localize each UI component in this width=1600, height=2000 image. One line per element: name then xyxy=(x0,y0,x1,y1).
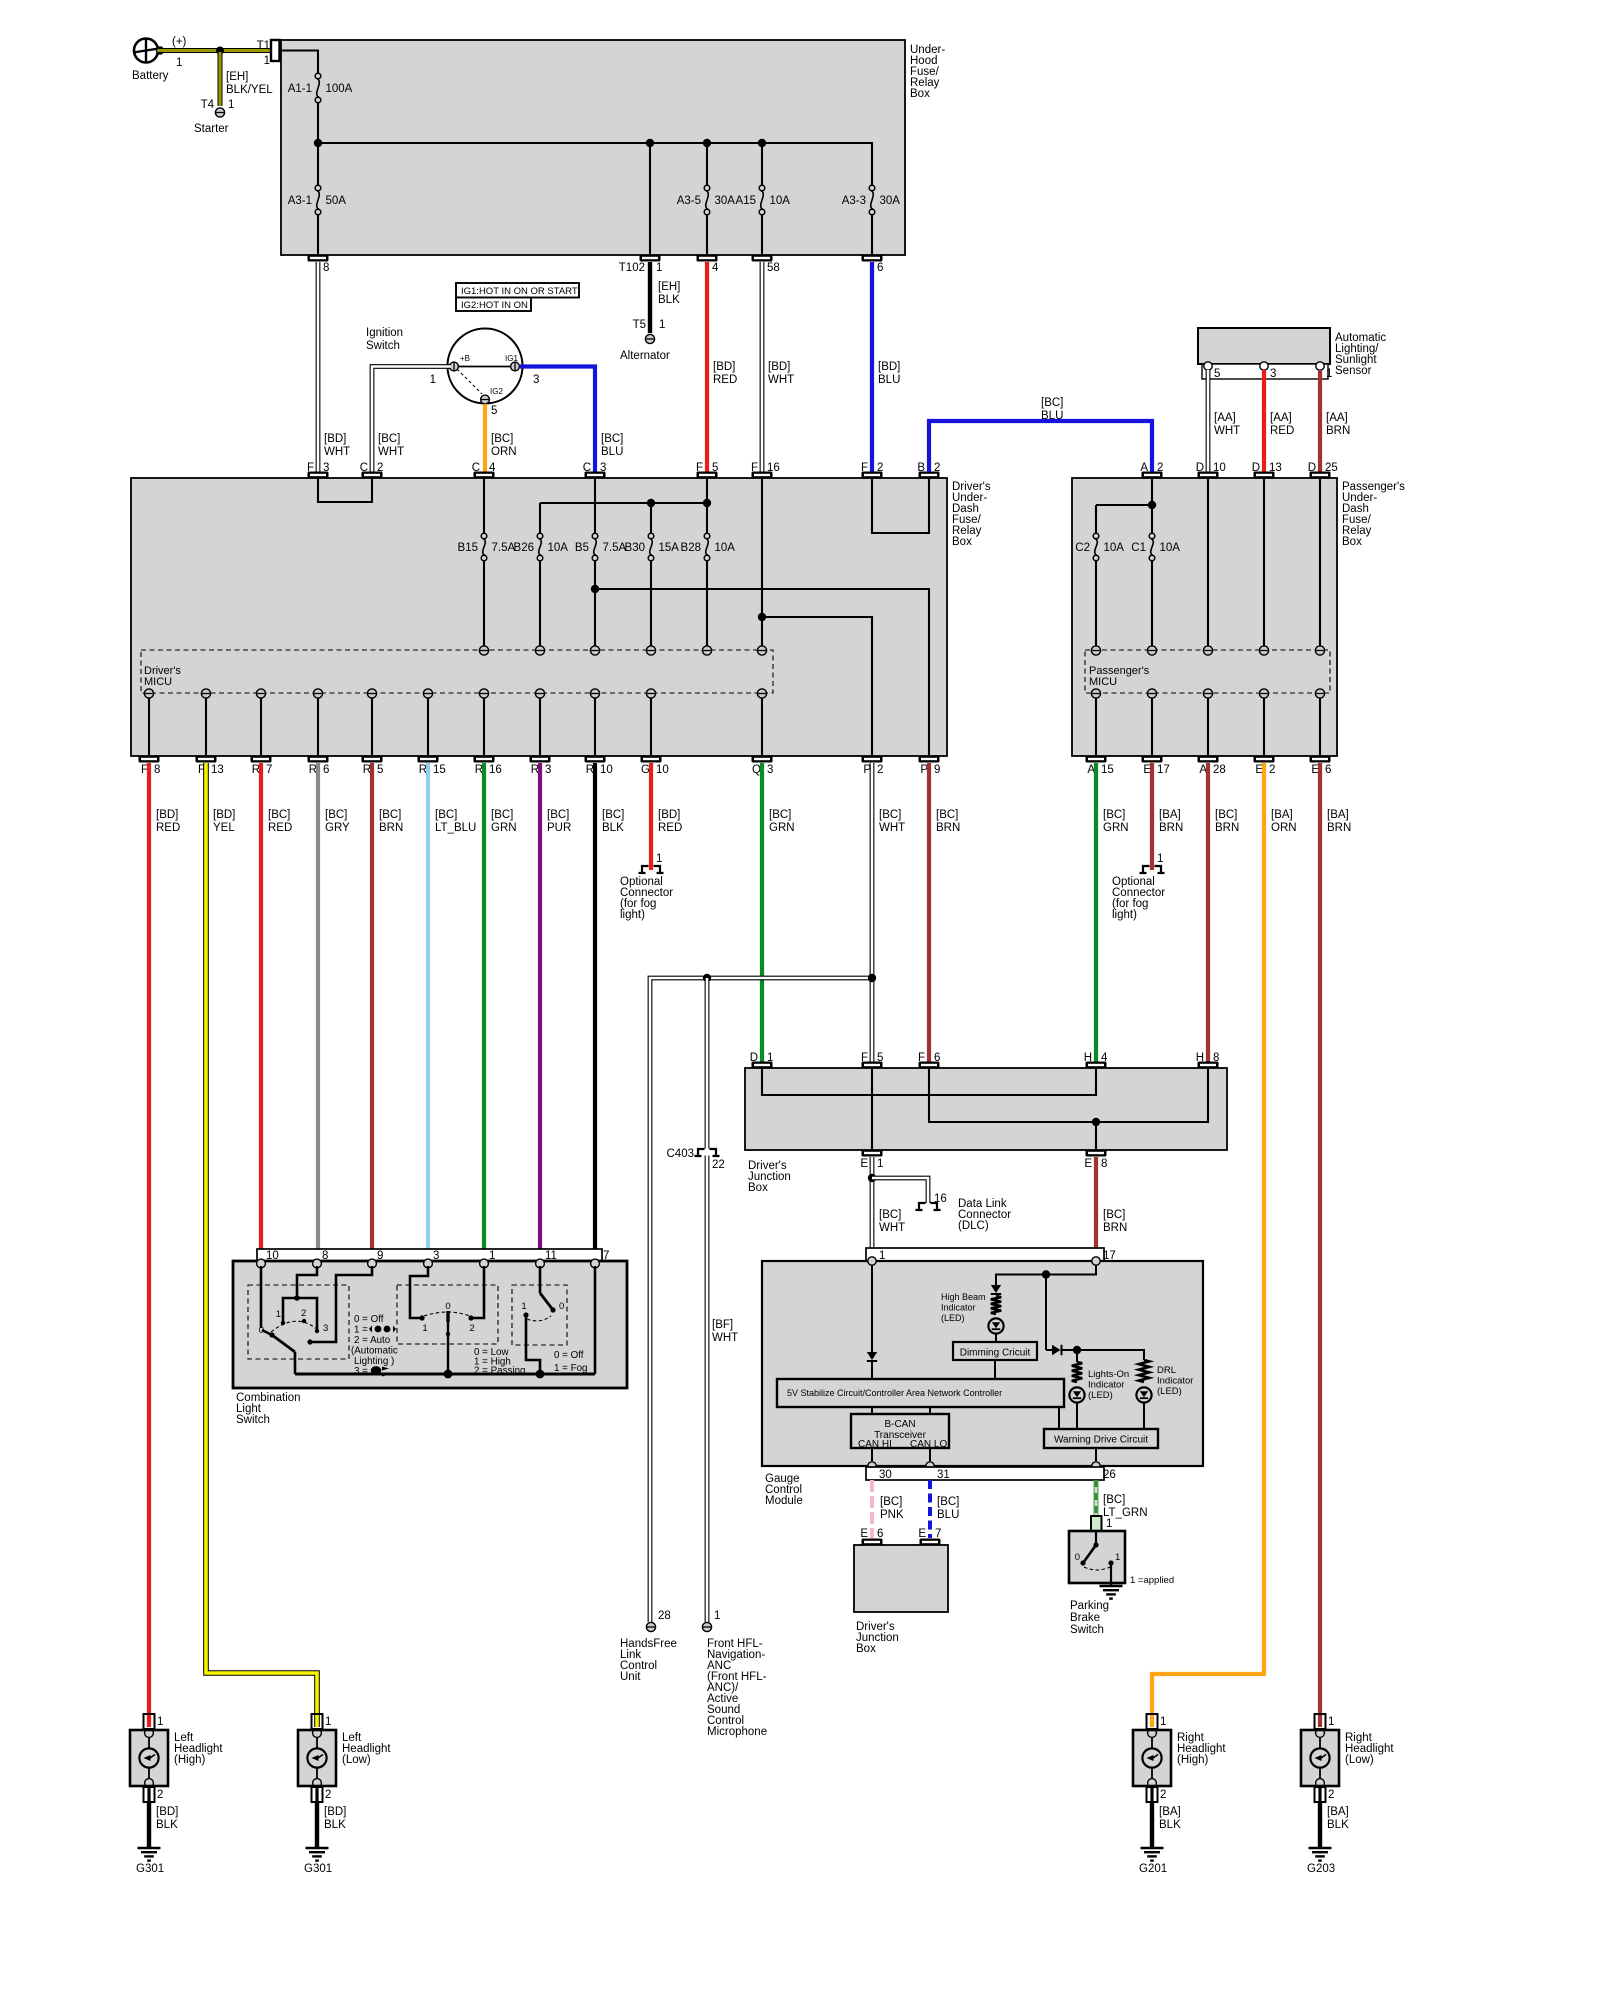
front HFL microphone terminal 1 xyxy=(702,1610,767,1738)
svg-text:7: 7 xyxy=(935,1528,941,1540)
wire R15 [BC] LT_BLU to combination switch 3 xyxy=(428,763,476,1249)
svg-text:RED: RED xyxy=(713,374,737,386)
lights-on indicator (LED) xyxy=(1069,1350,1129,1429)
wire CAN HI to pin 30 xyxy=(871,1448,873,1461)
MICU input terminal x762 xyxy=(757,646,766,655)
svg-text:Indicator: Indicator xyxy=(941,1303,976,1313)
driver's MICU xyxy=(141,650,773,693)
wire D25 to MICU xyxy=(1319,478,1321,646)
passenger MICU output terminal x1264 xyxy=(1259,689,1268,755)
terminal E 1 (junction box bottom) xyxy=(860,1150,883,1171)
wire pin26 [BC] LT_GRN to parking brake switch xyxy=(1096,1480,1148,1519)
svg-text:10: 10 xyxy=(1213,462,1226,474)
wire F8 [BD] RED to left headlight high xyxy=(149,763,180,1727)
svg-text:10A: 10A xyxy=(1104,542,1125,554)
ground G201 xyxy=(1139,1848,1167,1875)
combination switch common bus xyxy=(295,1266,595,1374)
fog switch dashed box xyxy=(512,1285,567,1345)
fuse B5 7.5A xyxy=(575,533,627,646)
fuse A15 10A xyxy=(736,143,791,255)
lighting switch lever xyxy=(259,1325,295,1374)
combination switch pin circle x317 xyxy=(313,1259,322,1268)
terminal F 6 (junction box top) xyxy=(918,1052,940,1069)
svg-text:3: 3 xyxy=(533,374,539,386)
wire C3 to fuse B5 xyxy=(594,478,596,533)
Left Headlight (Low) bulb xyxy=(298,1729,391,1788)
svg-text:(Low): (Low) xyxy=(342,1754,371,1766)
svg-text:BRN: BRN xyxy=(379,822,403,834)
wire E6 [BA] BRN to right headlight low xyxy=(1320,763,1351,1727)
MICU input terminal x707 xyxy=(702,646,711,655)
svg-text:[BD]: [BD] xyxy=(658,809,680,821)
svg-text:2: 2 xyxy=(877,764,883,776)
svg-text:1: 1 xyxy=(430,374,436,386)
svg-text:F: F xyxy=(861,1052,868,1064)
svg-text:E: E xyxy=(1084,1158,1092,1170)
fuse B26 10A xyxy=(514,503,569,646)
svg-text:D: D xyxy=(1252,462,1260,474)
svg-text:3: 3 xyxy=(323,462,329,474)
wire warning to pin 26 xyxy=(1095,1448,1097,1461)
MICU output terminal x261 xyxy=(256,689,265,755)
svg-text:GRN: GRN xyxy=(769,822,795,834)
wire C4 to fuse B15 xyxy=(483,478,485,533)
svg-text:BLK: BLK xyxy=(324,1819,346,1831)
wire [BD] WHT terminal 8 to F3 xyxy=(318,262,350,472)
svg-text:R: R xyxy=(475,764,483,776)
terminal H 4 (junction box top) xyxy=(1084,1052,1108,1069)
svg-text:8: 8 xyxy=(323,262,329,274)
wire starter branch xyxy=(201,52,274,111)
svg-text:[BD]: [BD] xyxy=(213,809,235,821)
svg-text:Switch: Switch xyxy=(236,1414,270,1426)
node A2 feed xyxy=(1148,501,1156,509)
svg-text:[BC]: [BC] xyxy=(491,809,513,821)
svg-text:PNK: PNK xyxy=(880,1509,904,1521)
svg-text:RED: RED xyxy=(156,822,180,834)
svg-text:[BD]: [BD] xyxy=(768,361,790,373)
wire D1 to H4 internal xyxy=(762,1068,1096,1095)
svg-text:[BC]: [BC] xyxy=(379,809,401,821)
passenger MICU output terminal x1096 xyxy=(1091,689,1100,755)
terminal D 13 (passenger box top) xyxy=(1252,462,1282,479)
svg-text:6: 6 xyxy=(1325,764,1331,776)
svg-text:Ignition: Ignition xyxy=(366,327,403,339)
svg-text:GRY: GRY xyxy=(325,822,350,834)
wire D13 to MICU xyxy=(1263,478,1265,646)
svg-text:8: 8 xyxy=(154,764,160,776)
wire E8 [BC] BRN to gauge 17 xyxy=(1096,1157,1127,1249)
svg-text:A1-1: A1-1 xyxy=(288,83,312,95)
wire Q3 [BC] GRN to junction box D1 xyxy=(762,763,795,1062)
fuse B28 10A xyxy=(681,503,736,646)
wire tap to diode2 xyxy=(1045,1275,1047,1351)
connector C403 22 xyxy=(667,1148,725,1171)
svg-text:G203: G203 xyxy=(1307,1863,1335,1875)
terminal B 2 (driver box top) xyxy=(917,462,940,479)
sensor pin 1 xyxy=(1316,362,1333,380)
terminal Q 3 (driver box bottom) xyxy=(752,756,774,777)
wire F2-B2 internal link xyxy=(872,478,929,533)
svg-text:1 =applied: 1 =applied xyxy=(1130,1575,1174,1586)
passenger MICU input terminal x1264 xyxy=(1259,646,1268,655)
svg-text:3: 3 xyxy=(600,462,606,474)
gauge pin 30 xyxy=(868,1462,876,1470)
svg-text:[BC]: [BC] xyxy=(936,809,958,821)
svg-text:17: 17 xyxy=(1157,764,1170,776)
terminal E 7 xyxy=(918,1528,941,1546)
svg-text:WHT: WHT xyxy=(879,822,905,834)
terminal 4 xyxy=(697,255,720,275)
wire F3-C2 internal link xyxy=(318,478,372,502)
svg-text:Indicator: Indicator xyxy=(1157,1376,1193,1387)
svg-text:1: 1 xyxy=(767,1052,773,1064)
svg-text:G301: G301 xyxy=(304,1863,332,1875)
MICU output terminal x428 xyxy=(423,689,432,755)
svg-text:[BC]: [BC] xyxy=(378,433,400,445)
wire A1-1 to bus xyxy=(317,103,319,141)
node F16-P2 tap xyxy=(758,613,766,621)
svg-text:2: 2 xyxy=(325,1789,331,1801)
svg-text:B-CAN: B-CAN xyxy=(884,1419,915,1430)
svg-text:B15: B15 xyxy=(458,542,478,554)
fuse B15 7.5A xyxy=(458,533,516,646)
terminal A 15 (passenger box bottom) xyxy=(1086,756,1114,777)
svg-text:C: C xyxy=(360,462,368,474)
wire A2 fuse feed xyxy=(1096,478,1152,533)
svg-text:10A: 10A xyxy=(715,542,736,554)
passenger MICU output terminal x1152 xyxy=(1147,689,1156,755)
svg-text:LT_BLU: LT_BLU xyxy=(435,822,476,834)
svg-text:Unit: Unit xyxy=(620,1671,641,1683)
svg-text:[EH]: [EH] xyxy=(226,71,248,83)
wire F6 to H8 internal xyxy=(929,1068,1208,1122)
terminal F 5 (driver box top) xyxy=(696,462,718,479)
passenger MICU input terminal x1320 xyxy=(1315,646,1324,655)
MICU output terminal x595 xyxy=(590,689,599,755)
wire E8 stub xyxy=(1095,1122,1097,1150)
wire [BD] BLK to G301 xyxy=(149,1787,178,1847)
svg-text:BLK: BLK xyxy=(658,294,680,306)
svg-text:[BC]: [BC] xyxy=(325,809,347,821)
svg-text:25: 25 xyxy=(1325,462,1338,474)
MICU output terminal x540 xyxy=(535,689,544,755)
svg-text:B30: B30 xyxy=(625,542,645,554)
svg-text:1 = Fog: 1 = Fog xyxy=(554,1363,588,1374)
svg-text:6: 6 xyxy=(323,764,329,776)
svg-text:(DLC): (DLC) xyxy=(958,1220,989,1232)
node B5 output xyxy=(591,585,599,593)
optional connector (for fog light) right xyxy=(1112,853,1165,921)
wire E2 [BA] ORN to right headlight high xyxy=(1152,763,1297,1727)
svg-text:Starter: Starter xyxy=(194,123,229,135)
svg-text:10: 10 xyxy=(600,764,613,776)
parking brake switch label xyxy=(1070,1600,1109,1636)
wire F13 [BD] YEL to left headlight low xyxy=(206,763,317,1727)
gauge pin 17 xyxy=(1092,1257,1100,1265)
fuse A3-1 50A xyxy=(288,143,347,255)
svg-text:1: 1 xyxy=(276,1309,281,1320)
wire T1 to fuse A1-1 xyxy=(279,51,318,74)
svg-text:CAN LO: CAN LO xyxy=(910,1439,947,1450)
svg-text:30A: 30A xyxy=(715,195,736,207)
headlight connector 1 (G201) xyxy=(1147,1714,1167,1729)
svg-text:WHT: WHT xyxy=(324,446,350,458)
node white branch C403 xyxy=(703,974,711,982)
sensor connector xyxy=(1202,364,1328,379)
svg-text:[BD]: [BD] xyxy=(324,433,346,445)
svg-text:H: H xyxy=(1196,1052,1204,1064)
automatic lighting/sunlight sensor xyxy=(1198,328,1386,377)
svg-text:R: R xyxy=(309,764,317,776)
wire F5 to E1 internal xyxy=(871,1068,873,1150)
svg-text:10: 10 xyxy=(656,764,669,776)
svg-text:30: 30 xyxy=(879,1469,892,1481)
svg-text:BLK: BLK xyxy=(1327,1819,1349,1831)
node battery/starter junction xyxy=(216,47,224,55)
5V stabilize circuit/controller area network controller xyxy=(777,1379,1064,1407)
terminal E 2 (passenger box bottom) xyxy=(1254,756,1276,777)
svg-text:16: 16 xyxy=(934,1193,947,1205)
node bus dimmer xyxy=(444,1370,453,1379)
svg-text:3: 3 xyxy=(545,764,551,776)
parking brake switch xyxy=(1069,1531,1125,1583)
svg-text:16: 16 xyxy=(767,462,780,474)
svg-text:Microphone: Microphone xyxy=(707,1726,767,1738)
terminal C 3 (driver box top) xyxy=(583,462,607,479)
svg-text:8: 8 xyxy=(1101,1158,1107,1170)
svg-text:Switch: Switch xyxy=(1070,1624,1104,1636)
terminal F 13 (driver box bottom) xyxy=(196,756,224,777)
svg-text:YEL: YEL xyxy=(213,822,235,834)
svg-text:Box: Box xyxy=(748,1182,768,1194)
svg-text:BLK: BLK xyxy=(1159,1819,1181,1831)
svg-text:[BC]: [BC] xyxy=(1215,809,1237,821)
svg-text:[BA]: [BA] xyxy=(1159,809,1181,821)
svg-text:0: 0 xyxy=(259,1325,264,1336)
gauge control module connector bar bottom xyxy=(866,1467,1116,1481)
svg-text:[BC]: [BC] xyxy=(268,809,290,821)
svg-text:1: 1 xyxy=(1160,1716,1166,1728)
node DLC tap xyxy=(868,1174,876,1182)
MICU output terminal x318 xyxy=(313,689,322,755)
DRL indicator (LED) xyxy=(1136,1360,1193,1429)
wire F5 fuse feed bus xyxy=(706,478,708,503)
headlight connector 1 (G301) xyxy=(144,1714,164,1729)
fuse B30 15A xyxy=(625,503,680,646)
driver's under-dash fuse/relay box xyxy=(131,478,991,756)
svg-text:8: 8 xyxy=(1213,1052,1219,1064)
starter terminal T4-1 xyxy=(194,108,229,135)
svg-text:7.5A: 7.5A xyxy=(603,542,627,554)
svg-text:B5: B5 xyxy=(575,542,589,554)
under-hood fuse/relay box xyxy=(281,40,945,255)
node E8 tap xyxy=(1092,1118,1100,1126)
wire diode to 5V box xyxy=(871,1362,873,1379)
wire F3 label [BD] WHT xyxy=(0,0,1,1)
dimming circuit xyxy=(953,1342,1037,1360)
svg-text:B26: B26 xyxy=(514,542,534,554)
terminal T102 1 xyxy=(619,255,663,275)
combination switch pin circle x428 xyxy=(424,1259,433,1268)
svg-text:WHT: WHT xyxy=(1214,425,1240,437)
gauge control module connector bar top xyxy=(866,1248,1116,1262)
terminal E 8 (junction box bottom) xyxy=(1084,1150,1107,1171)
svg-text:G301: G301 xyxy=(136,1863,164,1875)
svg-text:16: 16 xyxy=(489,764,502,776)
fuse A1-1 100A xyxy=(288,73,353,103)
terminal F 3 (driver box top) xyxy=(307,462,329,479)
terminal E 17 (passenger box bottom) xyxy=(1142,756,1170,777)
svg-text:Switch: Switch xyxy=(366,340,400,352)
svg-text:C: C xyxy=(583,462,591,474)
svg-text:0: 0 xyxy=(445,1301,450,1312)
svg-text:5: 5 xyxy=(1214,368,1220,380)
svg-text:A3-3: A3-3 xyxy=(842,195,866,207)
svg-text:2: 2 xyxy=(157,1789,163,1801)
wire [BC] GRN A15 to junction box H4 xyxy=(1096,763,1129,1062)
svg-text:[AA]: [AA] xyxy=(1326,412,1348,424)
svg-text:WHT: WHT xyxy=(768,374,794,386)
svg-text:A3-1: A3-1 xyxy=(288,195,312,207)
dimmer lever xyxy=(424,1301,470,1374)
wire ignition IG1 pin 3 [BC] BLU xyxy=(520,367,623,473)
passenger MICU output terminal x1320 xyxy=(1315,689,1324,755)
wire [BD] WHT terminal 58 to F16 xyxy=(762,262,794,472)
svg-text:Lights-On: Lights-On xyxy=(1088,1369,1129,1380)
svg-text:CAN HI: CAN HI xyxy=(858,1439,892,1450)
svg-text:1: 1 xyxy=(659,319,665,331)
svg-text:28: 28 xyxy=(658,1610,671,1622)
wire D10 to MICU xyxy=(1207,478,1209,646)
svg-text:[BD]: [BD] xyxy=(156,1806,178,1818)
svg-text:+B: +B xyxy=(460,354,470,363)
wire [BD] RED terminal 4 to F5 xyxy=(707,262,737,472)
fuse C2 10A xyxy=(1075,533,1124,646)
svg-text:D: D xyxy=(750,1052,758,1064)
svg-text:[AA]: [AA] xyxy=(1214,412,1236,424)
wire R5 [BC] BRN to combination switch 9 xyxy=(372,763,403,1249)
wire pin1 internal xyxy=(871,1265,873,1352)
wire [BA] BLK to G201 xyxy=(1152,1787,1181,1847)
terminal D 10 (passenger box top) xyxy=(1196,462,1226,479)
svg-text:BLU: BLU xyxy=(1041,410,1063,422)
wire pin31 [BC] BLU to E7 xyxy=(930,1480,959,1538)
gauge pin 31 xyxy=(926,1462,934,1470)
svg-text:0 = Off: 0 = Off xyxy=(554,1350,584,1361)
svg-text:D: D xyxy=(1196,462,1204,474)
MICU output terminal x484 xyxy=(479,689,488,755)
svg-text:4: 4 xyxy=(489,462,496,474)
svg-text:5V Stabilize Circuit/Controlle: 5V Stabilize Circuit/Controller Area Net… xyxy=(787,1388,1002,1398)
svg-text:2: 2 xyxy=(301,1308,306,1319)
svg-text:High Beam: High Beam xyxy=(941,1292,986,1302)
gauge pin 1 xyxy=(868,1257,876,1265)
svg-text:(LED): (LED) xyxy=(1157,1386,1182,1397)
wire 5V to B-CAN left xyxy=(871,1407,873,1414)
svg-text:BLK: BLK xyxy=(602,822,624,834)
wire E1 [BC] WHT to gauge 1 xyxy=(872,1157,905,1249)
svg-text:0: 0 xyxy=(1075,1552,1080,1563)
wire [BA] BLK to G203 xyxy=(1320,1787,1349,1847)
svg-text:B28: B28 xyxy=(681,542,701,554)
driver's junction box xyxy=(745,1068,1227,1194)
wire 5V to warning circuit xyxy=(1058,1407,1060,1429)
svg-text:[BC]: [BC] xyxy=(435,809,457,821)
optional connector (for fog light) left xyxy=(620,853,673,921)
fog legend xyxy=(554,1350,588,1374)
svg-text:[BC]: [BC] xyxy=(880,1496,902,1508)
svg-text:C2: C2 xyxy=(1075,542,1090,554)
svg-text:Sensor: Sensor xyxy=(1335,365,1372,377)
driver's junction box lower xyxy=(854,1545,948,1655)
passenger MICU input terminal x1208 xyxy=(1203,646,1212,655)
svg-text:1: 1 xyxy=(877,1158,883,1170)
gauge pin 26 xyxy=(1092,1462,1100,1470)
wire R3 [BC] PUR to combination switch 11 xyxy=(540,763,571,1249)
svg-text:[BC]: [BC] xyxy=(1041,397,1063,409)
MICU input terminal x651 xyxy=(646,646,655,655)
svg-text:[BC]: [BC] xyxy=(937,1496,959,1508)
svg-text:light): light) xyxy=(1112,909,1137,921)
wire A28 [BC] BRN to junction box H8 xyxy=(1208,763,1239,1062)
svg-text:Box: Box xyxy=(856,1643,876,1655)
note IG1 hot in on or start xyxy=(456,283,579,298)
svg-text:Dimming Cricuit: Dimming Cricuit xyxy=(960,1348,1031,1359)
svg-text:R: R xyxy=(531,764,539,776)
svg-text:WHT: WHT xyxy=(712,1332,738,1344)
svg-text:(High): (High) xyxy=(174,1754,205,1766)
svg-text:0 = Off: 0 = Off xyxy=(354,1314,384,1325)
passenger MICU output terminal x1208 xyxy=(1203,689,1212,755)
svg-text:2: 2 xyxy=(1328,1789,1334,1801)
fog contact 1 xyxy=(521,1301,551,1374)
svg-text:7: 7 xyxy=(266,764,272,776)
wire pin10 to contact 0 xyxy=(260,1266,263,1328)
Left Headlight (High) bulb xyxy=(130,1729,223,1788)
warning drive circuit xyxy=(1044,1429,1158,1448)
node bus-T102 xyxy=(646,139,654,147)
svg-text:2: 2 xyxy=(377,462,383,474)
svg-text:ORN: ORN xyxy=(1271,822,1297,834)
lighting switch legend xyxy=(351,1314,398,1377)
terminal 8 xyxy=(308,255,330,275)
svg-text:GRN: GRN xyxy=(491,822,517,834)
wire G10 [BD] RED to optional connector xyxy=(651,763,682,870)
svg-text:GRN: GRN xyxy=(1103,822,1129,834)
terminal R 15 (driver box bottom) xyxy=(418,756,446,777)
node white branch P2 xyxy=(868,974,876,982)
svg-text:C403: C403 xyxy=(667,1148,695,1160)
svg-text:G201: G201 xyxy=(1139,1863,1167,1875)
svg-text:Box: Box xyxy=(952,536,972,548)
svg-text:Battery: Battery xyxy=(132,70,169,82)
terminal F 5 (junction box top) xyxy=(861,1052,883,1069)
svg-text:B: B xyxy=(917,462,925,474)
svg-text:[BA]: [BA] xyxy=(1271,809,1293,821)
combination switch pin circle x595 xyxy=(591,1259,600,1268)
svg-text:Indicator: Indicator xyxy=(1088,1380,1124,1391)
terminal C 2 (driver box top) xyxy=(360,462,384,479)
MICU output terminal x149 xyxy=(144,689,153,755)
svg-text:D: D xyxy=(1308,462,1316,474)
svg-text:9: 9 xyxy=(934,764,940,776)
data link connector (DLC) 16 xyxy=(916,1193,1012,1232)
svg-text:5: 5 xyxy=(491,405,497,417)
svg-text:1: 1 xyxy=(422,1323,427,1334)
svg-text:1: 1 xyxy=(264,55,270,67)
svg-text:(+): (+) xyxy=(172,36,187,48)
